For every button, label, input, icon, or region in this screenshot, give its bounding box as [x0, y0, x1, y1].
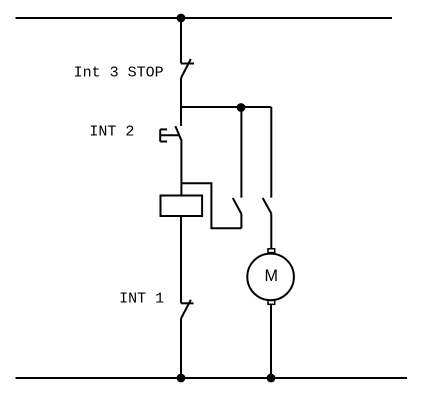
wire node A to motor contact — [270, 107, 272, 198]
contact Int 3 STOP (NC pushbutton) — [181, 59, 194, 78]
junction dot top rail / node STOP — [178, 15, 185, 22]
contact INT 1 (NC) — [181, 300, 194, 319]
contact INT 2 (NO start button with detent) — [160, 126, 182, 141]
wire coil bottom to INT 1 — [180, 216, 182, 303]
svg-text:M: M — [264, 267, 277, 285]
svg-text:INT 1: INT 1 — [119, 290, 164, 307]
wire bottom power rail — [16, 377, 408, 379]
wire from STOP to node A / INT 2 — [180, 78, 182, 126]
junction dot bottom rail left — [178, 375, 185, 382]
wire INT 1 to bottom rail — [180, 319, 182, 379]
wire self-hold branch (coil top to contact K1) — [181, 183, 241, 228]
contact K1 hold (NO) — [233, 198, 242, 214]
wire hold contact to self-hold branch — [240, 214, 242, 228]
wire from top rail to STOP contact — [180, 18, 182, 63]
wire motor to bottom rail — [270, 304, 272, 378]
wire from INT 2 to coil K1 — [180, 141, 182, 195]
motor terminal top — [268, 249, 275, 253]
wire node A horizontal branch — [181, 106, 271, 108]
junction dot bottom rail right — [268, 375, 275, 382]
motor terminal bottom — [268, 301, 275, 305]
svg-text:INT 2: INT 2 — [89, 124, 134, 141]
svg-text:Int 3 STOP: Int 3 STOP — [74, 65, 164, 82]
wire motor contact to motor — [270, 214, 272, 249]
contact K2 motor (NO) — [263, 198, 272, 214]
wire node A to hold contact — [240, 107, 242, 198]
wire top power rail — [16, 17, 393, 19]
junction dot node A — [238, 104, 245, 111]
coil K1 (relay coil) — [161, 196, 203, 217]
motor M circle — [247, 254, 294, 301]
